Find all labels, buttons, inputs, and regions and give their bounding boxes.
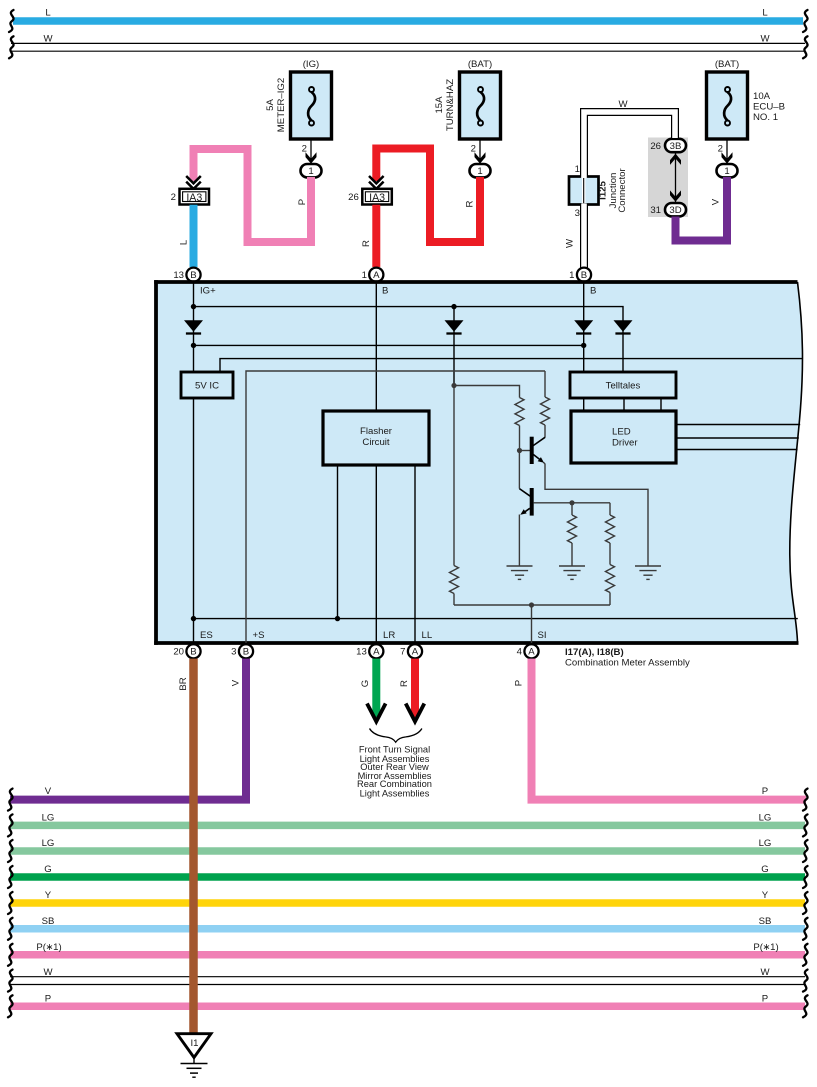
svg-text:P: P	[762, 786, 768, 797]
connector oval 1 (TURN fuse)	[470, 164, 491, 177]
wire W bus (hollow)	[10, 976, 805, 985]
wire ES bus y618.6	[194, 618, 798, 620]
wire bottom rail y605	[454, 604, 610, 606]
pin circle A 1 (top)	[369, 268, 383, 282]
svg-text:Y: Y	[45, 890, 52, 901]
svg-text:Circuit: Circuit	[362, 437, 390, 448]
connector IA3 pin 26	[348, 189, 392, 205]
wire bus y306.6 to diode D3 corner	[194, 307, 624, 372]
wire fuse ECU-B lead	[726, 139, 728, 165]
svg-text:10A: 10A	[753, 91, 771, 102]
connector oval 3D	[665, 203, 686, 216]
connector oval 3B	[665, 139, 686, 152]
arrow R output	[406, 704, 425, 722]
svg-text:1: 1	[569, 270, 574, 281]
svg-text:Driver: Driver	[612, 438, 638, 449]
box top border	[154, 280, 797, 284]
svg-text:G: G	[360, 680, 371, 687]
svg-text:1: 1	[575, 164, 580, 175]
wire between 3B and 3D with arrows	[675, 152, 677, 203]
node dot	[335, 616, 340, 621]
svg-text:B: B	[243, 647, 249, 658]
svg-text:SB: SB	[42, 916, 55, 927]
fuse TURN&amp;HAZ 15A	[460, 72, 501, 139]
box wavy right edge	[790, 282, 803, 643]
svg-text:G: G	[44, 864, 51, 875]
svg-text:15A: 15A	[434, 96, 445, 114]
node dot gray	[451, 383, 456, 388]
destination text block	[357, 745, 432, 799]
IC 5V IC box	[181, 372, 233, 398]
svg-text:5V IC: 5V IC	[195, 381, 219, 392]
transistor Q2	[519, 488, 531, 516]
resistor R1	[515, 398, 524, 426]
svg-text:R: R	[361, 240, 372, 247]
svg-text:P: P	[514, 680, 525, 686]
svg-text:B: B	[382, 286, 388, 297]
svg-text:3: 3	[231, 647, 236, 658]
svg-text:4: 4	[517, 647, 523, 658]
svg-text:LG: LG	[42, 813, 55, 824]
svg-text:W: W	[565, 238, 576, 248]
box left border	[154, 280, 158, 645]
break symbol P bus	[803, 789, 808, 811]
wire G bus	[10, 873, 805, 881]
svg-text:2: 2	[171, 192, 176, 203]
wire flasher to LL pin	[414, 465, 416, 643]
svg-text:1: 1	[724, 166, 729, 177]
connector oval 1 (IG fuse)	[301, 164, 322, 177]
svg-text:3: 3	[575, 208, 580, 219]
svg-text:B: B	[190, 647, 196, 658]
svg-text:7: 7	[400, 647, 405, 658]
break symbol L right	[803, 10, 808, 32]
ground (Q1 emitter)	[635, 566, 661, 579]
transistor Q1	[532, 437, 545, 464]
svg-text:P(∗1): P(∗1)	[753, 942, 778, 953]
svg-text:Rear Combination: Rear Combination	[357, 779, 432, 789]
wire 5V IC feed stub and bus y358.6	[220, 359, 803, 372]
svg-text:20: 20	[173, 647, 184, 658]
svg-text:NO. 1: NO. 1	[753, 112, 778, 123]
diode D4 (flasher feed)	[445, 320, 464, 333]
brace under arrows	[370, 729, 422, 743]
svg-text:B: B	[581, 270, 587, 281]
ground (R3)	[559, 566, 585, 579]
svg-text:1: 1	[308, 166, 313, 177]
transistor subcircuit (gray)	[246, 371, 648, 643]
wire R (red) from TURN fuse to IA3	[376, 149, 480, 243]
node dot SI rail	[529, 602, 534, 607]
svg-text:Flasher: Flasher	[360, 426, 393, 437]
svg-text:L: L	[179, 239, 190, 245]
pin circle B 3 (+S)	[239, 644, 253, 658]
svg-text:2: 2	[302, 143, 307, 154]
wire +S gray bus y371	[246, 371, 545, 643]
wire Y bus	[10, 899, 805, 907]
svg-text:V: V	[711, 198, 722, 205]
svg-text:LG: LG	[759, 813, 772, 824]
svg-text:W: W	[760, 34, 770, 45]
pin circle B 13 (top)	[186, 268, 200, 282]
pin circle B 1 (top right)	[577, 268, 591, 282]
wire R2 branch	[544, 371, 546, 397]
wire LG bus 1	[10, 822, 805, 830]
combination meter assembly body	[156, 282, 802, 643]
svg-text:LR: LR	[383, 630, 395, 641]
wire Q2 emitter drop	[518, 515, 520, 567]
svg-text:TURN&HAZ: TURN&HAZ	[445, 79, 456, 131]
junction block 3B/3D	[648, 138, 688, 218]
IC telltales box	[570, 372, 676, 398]
svg-text:BR: BR	[178, 677, 189, 690]
svg-text:B: B	[190, 270, 196, 281]
svg-text:SI: SI	[538, 630, 547, 641]
node dot	[451, 304, 456, 309]
node dot	[191, 616, 196, 621]
wire Q2 base run	[534, 502, 610, 504]
svg-text:A: A	[412, 647, 419, 658]
svg-text:IG+: IG+	[200, 286, 216, 297]
wire R (red) LL output	[411, 659, 419, 717]
svg-text:3B: 3B	[670, 141, 682, 152]
node dot	[581, 343, 586, 348]
svg-text:ECU–B: ECU–B	[753, 102, 785, 113]
wire Q1 base lead	[520, 450, 531, 452]
wire G (green) LR output	[372, 659, 380, 717]
svg-text:(BAT): (BAT)	[468, 59, 492, 70]
svg-text:A: A	[528, 647, 535, 658]
svg-text:1: 1	[362, 270, 367, 281]
IC flasher circuit box	[323, 411, 429, 465]
ground (Q2 emitter)	[507, 566, 533, 579]
svg-text:I17(A), I18(B): I17(A), I18(B)	[565, 647, 624, 658]
svg-text:(IG): (IG)	[303, 59, 320, 70]
svg-text:LG: LG	[759, 838, 772, 849]
wire B riser to flasher	[375, 282, 377, 411]
svg-text:R: R	[465, 200, 476, 207]
break symbol W left	[9, 36, 14, 58]
pin circle A 7 (LL)	[408, 644, 422, 658]
svg-text:P: P	[45, 994, 51, 1005]
svg-text:13: 13	[356, 647, 367, 658]
svg-text:LL: LL	[422, 630, 433, 641]
node dot	[191, 343, 196, 348]
wire ES riser from 5V IC	[193, 398, 195, 643]
wire L (blue) from IA3 to pin 13	[190, 205, 198, 267]
svg-text:A: A	[373, 270, 380, 281]
svg-text:2: 2	[718, 143, 723, 154]
svg-text:L: L	[762, 8, 768, 19]
diode D1 (IG+)	[184, 320, 203, 333]
resistor R3	[571, 503, 573, 515]
fuse ECU-B NO.1 10A	[707, 72, 748, 139]
svg-text:26: 26	[650, 141, 661, 152]
svg-text:Connector: Connector	[617, 168, 628, 213]
svg-text:LG: LG	[42, 838, 55, 849]
splice arrows into IA3 (red)	[369, 176, 384, 189]
svg-text:2: 2	[471, 143, 476, 154]
svg-text:A: A	[373, 647, 380, 658]
wire SI riser	[531, 605, 533, 643]
svg-text:P: P	[297, 199, 308, 205]
wire P bus (bottom)	[10, 1003, 805, 1011]
wire V (purple) +S to left bus	[10, 659, 246, 800]
wire W (hollow) from I125 pin3 to pin B	[580, 205, 588, 268]
resistor R2	[541, 397, 550, 425]
wire LG bus 2	[10, 847, 805, 855]
wire R1 branch	[454, 386, 520, 398]
wire telltales-LED stubs	[583, 398, 585, 411]
svg-text:(BAT): (BAT)	[715, 59, 739, 70]
wire P (pink) SI to right bus	[532, 659, 807, 800]
svg-text:V: V	[45, 786, 52, 797]
diode D2 (B right)	[574, 320, 593, 333]
wire L bus (blue, top)	[13, 17, 803, 25]
svg-text:Light Assemblies: Light Assemblies	[360, 789, 430, 799]
pin circle A 4 (SI)	[524, 644, 538, 658]
IC LED driver box	[571, 411, 676, 463]
svg-text:3D: 3D	[669, 205, 681, 216]
svg-text:L: L	[45, 8, 51, 19]
pin circle B 20 (ES)	[186, 644, 200, 658]
wire W bus (hollow white wire)	[11, 43, 805, 52]
wire bus y345.4	[194, 344, 584, 346]
svg-text:5A: 5A	[265, 99, 276, 111]
svg-text:Telltales: Telltales	[606, 381, 641, 392]
svg-text:ES: ES	[200, 630, 213, 641]
wire R5 drop	[453, 386, 455, 566]
node dot	[191, 304, 196, 309]
svg-text:I125: I125	[598, 181, 609, 200]
ground I1 (chassis)	[177, 1034, 211, 1078]
wire flasher left stub to ES bus	[337, 465, 339, 619]
connector IA3 pin 2	[171, 189, 209, 205]
svg-text:V: V	[231, 679, 242, 686]
svg-text:Y: Y	[762, 890, 769, 901]
svg-text:IA3: IA3	[186, 192, 202, 204]
wire P (pink) from IG fuse to IA3	[194, 149, 312, 242]
junction connector I125	[569, 164, 628, 219]
pin circle A 13 (LR)	[369, 644, 383, 658]
svg-text:I1: I1	[190, 1038, 198, 1049]
break symbol W right	[803, 36, 808, 58]
resistor R4 upper	[609, 503, 611, 515]
svg-text:LED: LED	[612, 427, 631, 438]
svg-text:R: R	[399, 680, 410, 687]
wire SB bus	[10, 925, 805, 933]
wire B right riser to telltales	[583, 282, 585, 372]
svg-text:SB: SB	[759, 916, 772, 927]
wire R (red) from IA3 to pin 1	[372, 205, 380, 267]
svg-text:Combination Meter Assembly: Combination Meter Assembly	[565, 658, 690, 669]
svg-text:13: 13	[173, 270, 184, 281]
svg-text:W: W	[618, 99, 628, 110]
svg-text:+S: +S	[253, 630, 265, 641]
arrow G output	[367, 704, 386, 722]
wire flasher to LR pin	[375, 465, 377, 643]
fuse METER-IG2 5A	[291, 72, 332, 139]
svg-text:IA3: IA3	[369, 192, 385, 204]
wire W (hollow) from I125 pin1 over to 3B	[584, 112, 675, 177]
wire Q1 emitter run to ground	[544, 462, 649, 566]
resistor R4 lower	[606, 565, 615, 593]
wire fuse TURN lead	[479, 139, 481, 165]
break symbol L left	[9, 10, 14, 32]
svg-text:P(∗1): P(∗1)	[36, 942, 61, 953]
svg-text:B: B	[590, 286, 596, 297]
svg-text:W: W	[43, 967, 53, 978]
node dot Q1 base	[517, 448, 522, 453]
node dot Q2 base	[569, 500, 574, 505]
wire diode A drop	[453, 307, 455, 386]
wire LED driver outputs	[676, 424, 800, 426]
resistor R5	[450, 566, 459, 594]
svg-text:1: 1	[477, 166, 482, 177]
svg-text:31: 31	[650, 205, 661, 216]
wire fuse IG lead	[310, 139, 312, 165]
svg-text:W: W	[43, 34, 53, 45]
box bottom border	[154, 641, 798, 645]
wire Q2 collector riser	[518, 451, 520, 489]
break symbol V bus	[8, 789, 13, 811]
wire V (purple) from ECU-B fuse to 3D	[676, 177, 728, 241]
svg-text:METER–IG2: METER–IG2	[276, 78, 287, 132]
splice arrows into IA3 (pink)	[186, 176, 201, 189]
svg-text:G: G	[761, 864, 768, 875]
wire BR (brown) ES to ground	[189, 659, 198, 1036]
svg-text:26: 26	[348, 192, 359, 203]
wire P(*1) bus	[10, 951, 805, 959]
wire IG+ riser	[193, 282, 195, 372]
svg-text:W: W	[760, 967, 770, 978]
svg-text:P: P	[762, 994, 768, 1005]
diode D3	[614, 320, 633, 333]
connector oval 1 (ECU-B fuse)	[717, 164, 738, 177]
